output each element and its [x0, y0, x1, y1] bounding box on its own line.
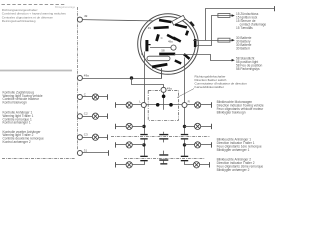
switch inner ring: [141, 17, 196, 72]
wire L bus mid: [144, 107, 146, 134]
wire R bus bottom elbow: [185, 161, 194, 164]
node C end bar: [107, 94, 109, 99]
node box pivot: [162, 95, 166, 99]
lamp row2 right: [195, 123, 201, 129]
wire row2 left: [115, 126, 126, 128]
caption dashed rule: [2, 4, 67, 6]
connector R bus boundary1: [181, 134, 188, 135]
svg-text:C2: C2: [84, 112, 88, 116]
control row C3: [77, 135, 82, 140]
wire mid line upper stub: [163, 132, 165, 134]
node L bus row2: [142, 125, 145, 128]
wire C row: [82, 96, 92, 98]
switch lamp wire: [150, 47, 171, 49]
svg-text:15 Tændlås: 15 Tændlås: [236, 26, 253, 30]
terminal 49a: [77, 76, 82, 81]
switch terminal lug L: [145, 40, 148, 51]
caption text block: [2, 8, 67, 23]
label blinkleuchte trailer2 block: [217, 158, 264, 173]
svg-text:Retningsviserblinkanlæg: Retningsviserblinkanlæg: [2, 19, 36, 23]
wire 31 row: [82, 152, 108, 154]
wire 30 rail top: [206, 9, 276, 41]
switch terminal lug 49 entry: [159, 19, 172, 24]
wire trailer1 right end: [201, 144, 212, 146]
arrow 30: [232, 39, 235, 42]
node box contact left: [156, 103, 160, 107]
svg-text:Blinkgeberanlage: Blinkgeberanlage: [55, 5, 76, 9]
wire towing left: [115, 104, 126, 106]
switch terminal lug hazard: [175, 23, 187, 28]
boundary dash-dot horizontal trailer 2 left: [2, 158, 76, 160]
wire C3 row end: [99, 137, 108, 139]
connector mid boundary1: [159, 134, 168, 135]
switch pilot lamp: [171, 45, 176, 50]
lamp trailer1 right: [195, 142, 201, 148]
label kontrolle trailer1 block: [3, 111, 34, 125]
svg-text:Blinklygter trækvogn: Blinklygter trækvogn: [217, 111, 246, 115]
lamp row towing left start bar: [115, 102, 117, 107]
node trailer2 right end bar: [209, 162, 211, 167]
node trailer1 right end bar: [211, 142, 213, 147]
label 30 block: [236, 36, 252, 50]
switch ring tick: [189, 21, 194, 27]
lamp towing right: [195, 102, 201, 108]
svg-text:Kontrol trækvogn: Kontrol trækvogn: [3, 101, 27, 105]
switch terminal lug 15 right: [194, 39, 197, 47]
node mid end bar: [160, 163, 167, 164]
wire trailer1 left: [115, 144, 126, 146]
wire trailer1 right from bus: [185, 144, 195, 146]
node towing right end bar: [211, 102, 213, 107]
wire 49a branch to flasher box: [132, 78, 164, 88]
label kontrolle towing block: [3, 91, 43, 105]
node 49a junction: [130, 76, 133, 79]
wire box pendulum: [163, 92, 165, 110]
control row C2: [77, 114, 82, 119]
wire C row end: [99, 96, 108, 98]
label switch block: [195, 75, 248, 89]
svg-text:Blinklygter anhænger 1: Blinklygter anhænger 1: [217, 148, 250, 152]
connector R bus boundary2: [181, 156, 188, 157]
svg-text:49: 49: [84, 14, 88, 18]
wire trailer2 right end: [200, 164, 210, 166]
wire towing right end: [201, 104, 212, 106]
node C3 end bar: [107, 135, 109, 140]
node rail end bar: [274, 6, 276, 11]
terminal 49: [77, 17, 82, 22]
node row2 right end bar: [211, 124, 213, 129]
node L bus row3: [142, 143, 145, 146]
wire row2 left to bus: [132, 126, 144, 128]
svg-text:Kontrol anhænger 2: Kontrol anhænger 2: [3, 140, 31, 144]
wire C2 row: [82, 116, 92, 118]
terminal L: [141, 103, 146, 108]
svg-text:30 Batteri: 30 Batteri: [236, 46, 250, 50]
switch lever slot: [147, 56, 170, 61]
wire row2 right end: [201, 126, 212, 128]
wire trailer2 left: [115, 164, 126, 166]
wire 15 to fuse: [196, 16, 232, 46]
switch terminal lug 58b: [174, 59, 181, 64]
wire L bus upper: [144, 52, 146, 103]
wire terminal 49a main: [82, 68, 161, 78]
wire R bus upper: [184, 58, 186, 103]
lamp trailer2 left: [126, 162, 132, 168]
boundary dash-dot horizontal trailer 1: [111, 136, 210, 138]
wire C3 row: [82, 137, 92, 139]
leader line switch label: [177, 89, 194, 98]
boundary dash-dot horizontal trailer 2 right: [124, 158, 205, 160]
switch terminal bar 58: [159, 53, 175, 56]
node box contact right: [169, 103, 173, 107]
label blinkleuchte trailer1 block: [217, 137, 262, 152]
switch terminal lug 49a diag 1: [166, 34, 176, 41]
node R bus row2: [183, 125, 186, 128]
flasher unit box: [148, 90, 178, 120]
wire trailer1 left to bus: [132, 144, 144, 146]
wire box internal bus: [146, 104, 182, 106]
svg-text:49a: 49a: [168, 40, 173, 44]
wire mid end stub: [163, 161, 165, 164]
switch terminal bar 49a bottom: [152, 63, 168, 68]
lamp C2: [92, 113, 98, 119]
switch terminal lug C: [155, 34, 160, 42]
node C2 end bar: [107, 114, 109, 119]
wire R bus mid: [184, 107, 186, 134]
boundary dash-dot vertical (vehicle boundary): [77, 7, 79, 150]
faint separator line: [0, 70, 72, 72]
terminal R: [182, 103, 187, 108]
lamp row trailer1 left start bar: [115, 142, 117, 147]
svg-text:31: 31: [84, 148, 88, 152]
svg-text:58: 58: [161, 49, 165, 53]
wire 58: [174, 55, 232, 61]
arrow 15: [232, 14, 235, 17]
terminal 49a box: [161, 87, 166, 92]
fuse 15: [218, 14, 230, 18]
lamp C: [92, 94, 98, 100]
svg-text:Blinklygter anhænger 2: Blinklygter anhænger 2: [217, 168, 250, 172]
connector L bus boundary1: [140, 134, 147, 135]
switch knob slot top-right: [172, 15, 185, 25]
control row 31: [77, 151, 82, 156]
node R bus row3: [183, 143, 186, 146]
connector L bus boundary2: [140, 156, 147, 157]
svg-text:Kørselsblinkomskifter: Kørselsblinkomskifter: [195, 85, 224, 89]
svg-text:58 Parkeringslys: 58 Parkeringslys: [236, 67, 260, 71]
switch terminal bar top: [154, 26, 169, 29]
wire C2 row end: [99, 116, 108, 118]
svg-text:49: 49: [148, 26, 152, 30]
wire R bus lower: [184, 139, 186, 155]
wire towing left to L: [132, 104, 141, 106]
label 15 block: [236, 12, 266, 30]
wire row2 right from bus: [185, 126, 195, 128]
node 31 end bar: [108, 150, 110, 155]
label blinkleuchte towing block: [217, 100, 265, 115]
lamp row2 left: [126, 123, 132, 129]
lamp towing left: [126, 102, 132, 108]
wire terminal 49 to switch: [82, 20, 153, 21]
wire mid riser to switch: [161, 68, 163, 78]
wire mid stub below: [163, 139, 165, 142]
wire L bus bottom elbow: [132, 161, 144, 164]
svg-text:49a: 49a: [167, 86, 172, 90]
lamp trailer2 right: [193, 162, 199, 168]
lamp row 2 left start bar: [115, 124, 117, 129]
switch outer ring: [138, 14, 199, 75]
lamp row trailer2 left start bar: [115, 162, 117, 167]
switch terminal lug 30: [185, 30, 189, 36]
lamp trailer1 left: [126, 142, 132, 148]
arrow 58: [232, 59, 235, 62]
wire towing right from R: [187, 104, 195, 106]
switch terminal lug R: [183, 53, 190, 60]
connector mid boundary2: [159, 154, 168, 155]
wire mid stub above boundary2: [163, 151, 165, 155]
fuse 30: [218, 38, 230, 42]
svg-text:49a: 49a: [84, 73, 89, 77]
lamp C3: [92, 134, 98, 140]
svg-text:C: C: [161, 36, 163, 40]
switch terminal lug diag 2: [173, 36, 182, 42]
label kontrolle trailer2 block: [3, 130, 45, 144]
svg-text:Kontrol anhænger 1: Kontrol anhænger 1: [3, 121, 31, 125]
control row C: [77, 95, 82, 100]
wire L bus lower: [144, 139, 146, 155]
svg-text:C3: C3: [84, 133, 88, 137]
label 58 block: [236, 57, 262, 72]
wire 30 to fuse: [193, 40, 232, 42]
